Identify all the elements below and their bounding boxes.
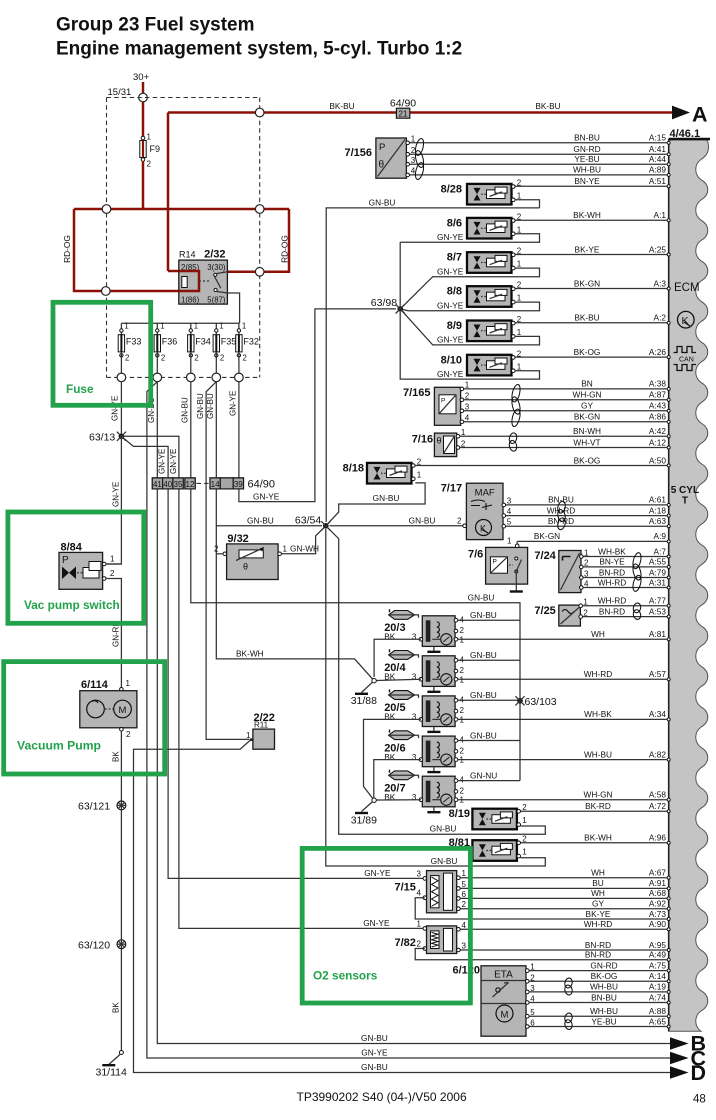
svg-text:3: 3	[412, 793, 417, 802]
svg-text:BK: BK	[384, 632, 396, 642]
svg-text:3: 3	[465, 402, 470, 411]
svg-text:A:42: A:42	[649, 426, 666, 436]
svg-text:F34: F34	[195, 337, 211, 347]
svg-text:GN-BU: GN-BU	[180, 397, 189, 423]
wire WH-RD to ECM pin A:31	[581, 587, 668, 589]
svg-text:1: 1	[517, 225, 522, 234]
svg-text:6/120: 6/120	[453, 965, 481, 977]
svg-text:5(87): 5(87)	[207, 295, 226, 304]
svg-text:48: 48	[693, 1094, 706, 1106]
fuse F34	[190, 323, 192, 334]
svg-text:3: 3	[417, 869, 422, 878]
svg-text:GN-BU: GN-BU	[470, 610, 497, 620]
wire 8/28 pin 1 loop	[515, 200, 539, 208]
node 63/103	[515, 696, 524, 705]
wire BN-RD to ECM pin A:95	[458, 949, 669, 951]
svg-text:GN-RD: GN-RD	[573, 144, 600, 154]
wire BK 20/7 to 31/89	[376, 799, 421, 801]
svg-text:8/7: 8/7	[447, 252, 462, 264]
svg-text:5 CYL: 5 CYL	[671, 485, 699, 496]
svg-text:2: 2	[460, 787, 465, 796]
svg-text:1: 1	[160, 322, 164, 331]
svg-text:A:49: A:49	[649, 950, 666, 960]
svg-text:A:41: A:41	[649, 144, 666, 154]
wire 2/22 GN-BU to arrow D	[134, 739, 673, 1072]
svg-text:D: D	[691, 1061, 707, 1085]
svg-text:8/18: 8/18	[343, 462, 364, 474]
svg-text:GY: GY	[581, 401, 593, 411]
svg-text:2: 2	[214, 545, 219, 554]
svg-text:GN-YE: GN-YE	[228, 391, 237, 416]
wire WH-BU to ECM pin A:82	[456, 759, 669, 761]
node circles on dashed box	[102, 205, 111, 214]
svg-text:7/6: 7/6	[468, 549, 483, 561]
svg-text:1: 1	[417, 470, 422, 479]
svg-text:1: 1	[194, 322, 198, 331]
wire BN to ECM pin A:38	[462, 388, 669, 390]
svg-text:GN-RD: GN-RD	[590, 960, 617, 970]
svg-text:A:15: A:15	[649, 133, 666, 143]
twisted pair 7/17	[557, 501, 567, 514]
wire WH-GN to ECM pin A:87	[462, 399, 669, 401]
svg-text:3: 3	[412, 753, 417, 762]
svg-text:GN-YE: GN-YE	[437, 335, 464, 345]
svg-text:Fuse: Fuse	[66, 382, 94, 396]
pin 1 of 9/32 wire GN-WH to 63/54	[278, 552, 282, 556]
pins of 20/7	[454, 779, 458, 783]
svg-text:A:75: A:75	[649, 960, 666, 970]
wire GY to ECM pin A:92	[458, 908, 669, 910]
wire F35 to pin 14 and 63/54	[215, 382, 217, 478]
wire WH to ECM pin A:67	[458, 877, 669, 879]
wire BK 20/6 to ground 31/89	[374, 760, 421, 798]
svg-text:GN-BU: GN-BU	[409, 515, 436, 525]
fuse F9	[141, 136, 145, 140]
svg-text:7/156: 7/156	[345, 147, 373, 159]
svg-text:GN-YE: GN-YE	[437, 232, 464, 242]
svg-text:4: 4	[530, 995, 535, 1004]
svg-text:2: 2	[460, 746, 465, 755]
svg-text:A:74: A:74	[649, 992, 666, 1002]
svg-text:5: 5	[530, 1008, 535, 1017]
svg-text:A:38: A:38	[649, 379, 666, 389]
svg-text:1: 1	[460, 715, 465, 724]
wire BN-YE to ECM pin A:51	[513, 185, 668, 187]
wire BK-GN to ECM pin A:86	[462, 421, 669, 423]
svg-text:7/15: 7/15	[395, 882, 416, 894]
node F32 output	[235, 373, 244, 382]
pin 1 of 7/6 to A:9	[515, 544, 519, 548]
svg-text:A: A	[692, 103, 708, 127]
svg-text:Vac pump switch: Vac pump switch	[24, 598, 120, 612]
svg-text:5: 5	[462, 880, 467, 889]
svg-text:A:7: A:7	[654, 546, 667, 556]
svg-text:3: 3	[530, 984, 535, 993]
svg-text:2: 2	[417, 457, 422, 466]
svg-text:1: 1	[219, 322, 223, 331]
wire F36 branch GN-YE to arrow C	[147, 382, 672, 1058]
svg-text:1: 1	[460, 675, 465, 684]
svg-text:14: 14	[211, 480, 220, 489]
svg-text:A:91: A:91	[649, 878, 666, 888]
relay coil red path	[179, 271, 199, 291]
svg-text:2: 2	[465, 391, 470, 400]
svg-text:A:1: A:1	[654, 210, 667, 220]
svg-text:4: 4	[507, 507, 512, 516]
svg-text:3: 3	[507, 496, 512, 505]
ECM K symbol	[678, 311, 695, 328]
svg-text:GN-BU: GN-BU	[468, 593, 495, 603]
wire battery feed to fuse F9	[142, 102, 145, 137]
svg-text:BK-GN: BK-GN	[574, 278, 600, 288]
svg-text:BK-GN: BK-GN	[534, 531, 560, 541]
wire 7/15 pin 4 loop to A:73	[415, 898, 469, 919]
twisted pair 7/16	[508, 432, 518, 444]
svg-text:A:3: A:3	[654, 278, 667, 288]
svg-text:A:43: A:43	[649, 401, 666, 411]
svg-text:41: 41	[153, 480, 162, 489]
pins of 20/3	[454, 618, 458, 622]
svg-text:A:51: A:51	[649, 176, 666, 186]
svg-text:2: 2	[583, 608, 588, 617]
svg-text:1: 1	[417, 919, 422, 928]
svg-text:WH-VT: WH-VT	[573, 437, 600, 447]
pin 2 of 9/32	[223, 552, 227, 556]
svg-text:1: 1	[522, 848, 527, 857]
wire BK 20/3 to ground 31/88	[374, 639, 421, 677]
svg-text:BK-OG: BK-OG	[574, 455, 601, 465]
svg-text:GN-BU: GN-BU	[361, 1062, 388, 1072]
wire BN-WH to ECM pin A:42	[458, 435, 669, 437]
svg-text:BN-YE: BN-YE	[599, 557, 625, 567]
svg-text:2: 2	[517, 349, 522, 358]
pins of 20/4	[454, 658, 458, 662]
wire BU to ECM pin A:91	[458, 887, 669, 889]
connector 64/90	[152, 478, 162, 489]
svg-text:2: 2	[460, 666, 465, 675]
red distribution wire horizontal	[74, 208, 289, 211]
svg-text:BK-OG: BK-OG	[591, 971, 618, 981]
svg-text:GN-YE: GN-YE	[437, 369, 464, 379]
svg-text:6: 6	[462, 890, 467, 899]
wire WH to ECM pin A:68	[458, 897, 669, 899]
svg-text:WH: WH	[591, 629, 605, 639]
wire BK-YE to ECM pin A:25	[513, 254, 668, 256]
svg-text:6: 6	[530, 1019, 535, 1028]
svg-text:BN-BU: BN-BU	[591, 992, 617, 1002]
svg-text:GN-WH: GN-WH	[290, 544, 319, 554]
svg-text:BN: BN	[581, 379, 593, 389]
svg-text:A:53: A:53	[649, 606, 666, 616]
branch pin 14 to 63/54 node	[216, 525, 322, 527]
svg-text:WH-BU: WH-BU	[573, 165, 601, 175]
wire F35 GN-BU branch down to 2/22	[206, 382, 249, 740]
wire BN-RD to ECM pin A:63	[504, 525, 669, 527]
svg-text:63/121: 63/121	[78, 801, 110, 813]
wire 63/54 down to 8/81 (GN-BU)	[326, 529, 546, 866]
svg-text:2: 2	[126, 730, 131, 739]
svg-text:2: 2	[147, 160, 152, 169]
pins of 20/5	[454, 699, 458, 703]
fuse F33	[120, 323, 122, 334]
svg-text:7/82: 7/82	[395, 937, 416, 949]
svg-text:BK-BU: BK-BU	[535, 101, 560, 111]
svg-text:YE-BU: YE-BU	[591, 1016, 616, 1026]
wire BK-OG to ECM pin A:14	[527, 980, 668, 982]
svg-text:P: P	[493, 559, 497, 566]
node F36 output	[153, 373, 162, 382]
svg-text:2: 2	[460, 626, 465, 635]
svg-text:1: 1	[465, 380, 470, 389]
wire WH-BK to ECM pin A:34	[456, 718, 669, 720]
wire pin 12 GN-BU down to ignition coil bus	[191, 489, 520, 620]
svg-text:A:90: A:90	[649, 919, 666, 929]
svg-text:A:55: A:55	[649, 557, 666, 567]
svg-text:BN-RD: BN-RD	[599, 606, 625, 616]
wire GN-BU pin 4 of 20/7	[458, 780, 520, 782]
svg-text:2: 2	[417, 940, 422, 949]
svg-text:WH: WH	[591, 868, 605, 878]
wire 63/13 down GN-YE to 8/84	[106, 436, 121, 564]
twisted pairs 7/24	[632, 552, 643, 570]
node F35 output	[212, 373, 221, 382]
svg-text:A:87: A:87	[649, 390, 666, 400]
fuse F36	[156, 323, 158, 334]
svg-text:GN-BU: GN-BU	[470, 690, 497, 700]
svg-text:2: 2	[522, 803, 527, 812]
svg-text:GY: GY	[592, 899, 604, 909]
wire BK 20/5 to ground 31/89	[364, 719, 421, 800]
svg-text:WH-BU: WH-BU	[590, 1006, 618, 1016]
svg-text:GN-YE: GN-YE	[437, 266, 464, 276]
svg-text:GN-YE: GN-YE	[361, 1048, 388, 1058]
svg-text:1: 1	[461, 428, 466, 437]
wire GN-RD to ECM pin A:41	[408, 153, 669, 155]
svg-text:MAF: MAF	[475, 488, 495, 499]
svg-text:1: 1	[522, 816, 527, 825]
wire relay 5(87) to fuse bus	[227, 293, 239, 323]
svg-text:40: 40	[163, 480, 172, 489]
svg-text:GN-YE: GN-YE	[112, 482, 121, 507]
svg-text:3: 3	[584, 569, 589, 578]
spark plug of 20/7	[389, 771, 415, 780]
svg-text:2: 2	[517, 281, 522, 290]
svg-text:GN-BU: GN-BU	[373, 493, 400, 503]
wire WH-BU to ECM pin A:89	[408, 174, 669, 176]
svg-text:Group 23 Fuel system: Group 23 Fuel system	[56, 15, 255, 36]
svg-text:WH-GN: WH-GN	[572, 390, 601, 400]
svg-text:7/16: 7/16	[412, 434, 433, 446]
relay contact	[199, 280, 211, 282]
spark plug of 20/5	[389, 691, 415, 700]
svg-text:GN-NU: GN-NU	[470, 771, 497, 781]
wire WH-GN to ECM pin A:58	[456, 799, 669, 801]
wire 63/98 up bus to 8/6	[399, 242, 401, 306]
svg-text:GN-BU: GN-BU	[247, 516, 274, 526]
green highlight box Vacuum Pump	[4, 662, 165, 774]
svg-text:2: 2	[517, 247, 522, 256]
svg-text:CAN: CAN	[679, 357, 694, 364]
svg-text:63/13: 63/13	[89, 431, 115, 443]
svg-text:θ: θ	[437, 436, 442, 446]
svg-text:BK-BU: BK-BU	[574, 313, 599, 323]
wire GN-RD to ECM pin A:75	[527, 970, 668, 972]
twisted pair 7/165	[510, 384, 521, 403]
svg-text:A:57: A:57	[649, 669, 666, 679]
wire WH-RD to ECM pin A:90	[458, 928, 669, 930]
wire pin 40 GN-YE down to O2 sensor 7/15	[168, 489, 423, 879]
svg-text:4/46.1: 4/46.1	[670, 128, 701, 140]
wire WH-RD to ECM pin A:18	[504, 515, 669, 517]
svg-text:GN-YE: GN-YE	[437, 300, 464, 310]
wire BN-YE to ECM pin A:55	[581, 566, 668, 568]
svg-text:WH-GN: WH-GN	[583, 790, 612, 800]
pin 1 of 8/84	[102, 562, 106, 566]
svg-text:GN-BU: GN-BU	[206, 393, 215, 419]
connector 64/90 pin boxes redraw on top	[152, 478, 162, 489]
wire BK from 6/114 down	[120, 731, 122, 1053]
wire GN-BU pin 4 of 20/4	[458, 659, 520, 661]
green highlight box Fuse	[53, 302, 151, 405]
svg-text:ECM: ECM	[674, 282, 700, 294]
svg-text:1: 1	[460, 796, 465, 805]
svg-text:1: 1	[126, 679, 131, 688]
wire 63/13 to pin 40 of 64/90	[121, 436, 168, 478]
svg-text:4: 4	[465, 413, 470, 422]
svg-text:31/88: 31/88	[351, 695, 377, 707]
svg-text:P: P	[441, 398, 445, 405]
wire BN-BU to ECM pin A:15	[408, 142, 669, 144]
ground stub of 20/5	[433, 727, 435, 732]
svg-text:A:81: A:81	[649, 629, 666, 639]
ground 31/114	[119, 1051, 123, 1055]
wire BN-RD to ECM pin A:53	[581, 616, 669, 618]
svg-text:ETA: ETA	[494, 970, 513, 981]
svg-text:WH-BK: WH-BK	[598, 546, 626, 556]
svg-text:A:95: A:95	[649, 940, 666, 950]
svg-text:2: 2	[517, 212, 522, 221]
svg-text:2: 2	[584, 559, 589, 568]
wire F34 GN-BU to pin 12	[190, 382, 192, 478]
svg-text:BN-BU: BN-BU	[548, 495, 574, 505]
svg-text:1: 1	[462, 869, 467, 878]
svg-text:64/90: 64/90	[390, 97, 416, 109]
svg-text:2: 2	[194, 354, 198, 363]
svg-text:1: 1	[110, 555, 115, 564]
wire BK-OG to ECM pin A:26	[513, 356, 668, 358]
svg-text:A:2: A:2	[654, 313, 667, 323]
svg-text:WH-RD: WH-RD	[547, 505, 576, 515]
wire GY to ECM pin A:43	[462, 410, 669, 412]
svg-text:RD-OG: RD-OG	[280, 235, 290, 263]
svg-text:12: 12	[186, 480, 195, 489]
svg-text:7/25: 7/25	[534, 605, 555, 617]
svg-text:8/19: 8/19	[449, 808, 470, 820]
svg-text:63/120: 63/120	[78, 940, 110, 952]
wire WH-BK to ECM pin A:7	[581, 556, 668, 558]
ground stem of 7/6	[515, 573, 517, 591]
arrow B	[670, 1037, 689, 1050]
svg-text:1: 1	[460, 635, 465, 644]
svg-text:1: 1	[124, 322, 128, 331]
svg-text:A:82: A:82	[649, 749, 666, 759]
wire WH-VT to ECM pin A:12	[458, 447, 669, 449]
svg-text:BN-RD: BN-RD	[585, 950, 611, 960]
wire F33 GN-YE down to 63/13	[120, 382, 122, 437]
svg-text:GN-YE: GN-YE	[363, 918, 390, 928]
green highlight box Vac pump switch	[8, 512, 144, 623]
svg-text:WH-RD: WH-RD	[584, 669, 613, 679]
pins of 20/6	[454, 739, 458, 743]
svg-text:9/32: 9/32	[227, 533, 248, 545]
svg-text:1: 1	[517, 362, 522, 371]
svg-text:BU: BU	[592, 878, 604, 888]
svg-text:7/24: 7/24	[534, 550, 556, 562]
ground stub of 20/6	[433, 767, 435, 772]
wire WH-BU to ECM pin A:88	[527, 1015, 668, 1017]
svg-text:31/89: 31/89	[351, 815, 377, 827]
svg-text:8/10: 8/10	[441, 354, 462, 366]
svg-text:1: 1	[460, 756, 465, 765]
ground stub of 20/3	[433, 646, 435, 651]
svg-text:TP3990202 S40 (04-)/V50 2006: TP3990202 S40 (04-)/V50 2006	[297, 1090, 467, 1104]
wire BK-GN to ECM pin A:9	[517, 540, 669, 542]
ground stub of 20/7	[433, 807, 435, 812]
wire YE-BU to ECM pin A:65	[527, 1026, 668, 1028]
svg-text:2: 2	[530, 973, 535, 982]
svg-text:A:50: A:50	[649, 455, 666, 465]
svg-text:BN-WH: BN-WH	[573, 426, 601, 436]
svg-text:F33: F33	[126, 337, 142, 347]
wire BN-BU to ECM pin A:61	[504, 504, 669, 506]
svg-text:64/90: 64/90	[248, 479, 276, 491]
svg-text:2/32: 2/32	[204, 249, 225, 261]
svg-text:A:88: A:88	[649, 1006, 666, 1016]
svg-text:BK: BK	[384, 752, 396, 762]
svg-text:1: 1	[530, 963, 535, 972]
svg-text:Vacuum Pump: Vacuum Pump	[17, 739, 101, 753]
junction 31/88	[372, 679, 376, 683]
svg-text:63/98: 63/98	[371, 297, 397, 309]
svg-text:GN-BU: GN-BU	[470, 730, 497, 740]
wire WH to ECM pin A:81	[456, 638, 669, 640]
svg-text:GN-YE: GN-YE	[158, 449, 167, 474]
svg-text:8/8: 8/8	[447, 286, 462, 298]
svg-text:BN-BU: BN-BU	[574, 133, 600, 143]
wire BN-RD to ECM pin A:79	[581, 577, 668, 579]
svg-text:31/114: 31/114	[96, 1067, 127, 1079]
wire BK-BU to ECM pin A:2	[513, 322, 668, 324]
svg-text:6/114: 6/114	[81, 679, 109, 691]
svg-text:BK: BK	[111, 751, 120, 762]
svg-text:GN-YE: GN-YE	[169, 449, 178, 474]
svg-text:A:63: A:63	[649, 516, 666, 526]
svg-text:R14: R14	[179, 250, 196, 260]
ground 31/88	[362, 682, 373, 692]
svg-text:BN-YE: BN-YE	[574, 176, 600, 186]
svg-text:M: M	[501, 1010, 509, 1021]
svg-text:P: P	[379, 142, 385, 153]
svg-text:A:86: A:86	[649, 412, 666, 422]
svg-text:T: T	[682, 496, 688, 507]
arrow D	[670, 1066, 689, 1079]
svg-text:A:65: A:65	[649, 1016, 666, 1026]
svg-text:WH-BU: WH-BU	[584, 749, 612, 759]
wire BN-RD to ECM pin A:49	[469, 959, 669, 961]
svg-text:A:26: A:26	[649, 347, 666, 357]
wire BK 20/4 to 31/88	[376, 679, 421, 680]
svg-text:O2 sensors: O2 sensors	[313, 969, 378, 983]
